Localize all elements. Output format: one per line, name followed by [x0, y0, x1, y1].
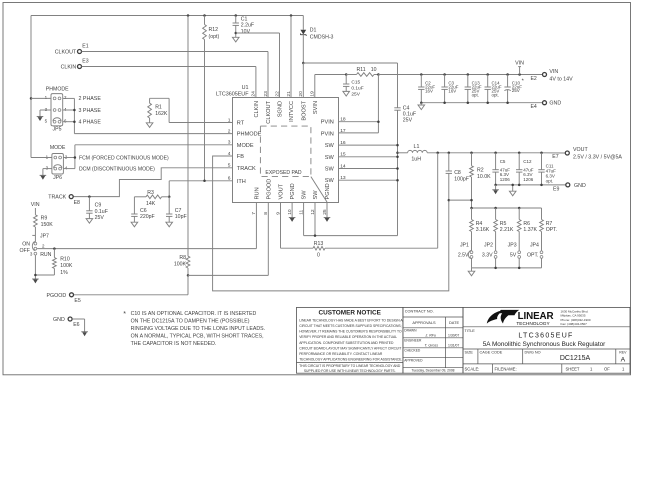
svg-text:FCM (FORCED CONTINUOUS MODE): FCM (FORCED CONTINUOUS MODE)	[79, 156, 169, 162]
chip right pin labels	[321, 120, 335, 185]
svg-text:LTC3605EUF: LTC3605EUF	[518, 332, 573, 339]
capacitor C12 47uF 6.3V 1206	[516, 153, 534, 185]
jumper JP4 OPT.	[527, 242, 543, 268]
node junction INTVCC/C1	[235, 14, 238, 17]
node junction D1/BOOST	[302, 62, 305, 65]
svg-text:14K: 14K	[146, 201, 156, 207]
node junction C1/SGND	[235, 32, 238, 35]
terminal E2 VIN	[530, 69, 573, 82]
svg-text:C4: C4	[403, 105, 410, 111]
svg-text:R9: R9	[41, 216, 48, 222]
capacitor C13 22uF 25V opt.	[465, 73, 482, 102]
svg-text:CIRCUIT BOARD LAYOUT MAY SIGNI: CIRCUIT BOARD LAYOUT MAY SIGNIFICANTLY A…	[299, 346, 401, 350]
resistor R1 162K	[148, 98, 233, 123]
node junction C12 top	[518, 152, 521, 155]
svg-text:VERIFY PROPER AND RELIABLE OPE: VERIFY PROPER AND RELIABLE OPERATION IN …	[299, 335, 397, 339]
svg-text:SW: SW	[325, 155, 335, 161]
svg-text:JP4: JP4	[530, 242, 539, 248]
wire JP5 pin3 to ground	[40, 110, 51, 117]
svg-text:OFF: OFF	[20, 248, 30, 254]
node junction JP5 pin6 tie	[73, 120, 76, 123]
wire JP6 pins 2/4 tie to MODE	[63, 145, 75, 169]
svg-text:SIZE: SIZE	[465, 351, 474, 355]
svg-text:JP6: JP6	[53, 175, 62, 181]
wire JP6 pin1	[31, 157, 52, 159]
svg-text:C5: C5	[500, 159, 506, 164]
node junction INTVCC/R8 bus	[187, 14, 190, 17]
svg-text:CMDSH-3: CMDSH-3	[310, 34, 334, 40]
svg-text:SUPPLIED FOR USE WITH LINEAR T: SUPPLIED FOR USE WITH LINEAR TECHNOLOGY …	[304, 369, 396, 373]
svg-text:VIN: VIN	[515, 60, 524, 66]
node junction ITH/R12 bus	[203, 180, 206, 183]
svg-text:R12: R12	[209, 27, 219, 33]
exposed pad	[260, 126, 327, 202]
svg-text:0.1uF: 0.1uF	[95, 209, 108, 215]
node junction ITH/C7	[168, 196, 171, 199]
svg-text:2.5V: 2.5V	[458, 253, 469, 259]
jumper JP1 2.5V	[458, 242, 473, 268]
inductor L1 1uH	[398, 144, 428, 162]
svg-text:16V: 16V	[425, 88, 433, 93]
svg-text:E2: E2	[530, 76, 536, 82]
wire CLKIN	[82, 67, 256, 99]
svg-text:SW: SW	[325, 143, 335, 149]
svg-text:SVIN: SVIN	[313, 101, 319, 114]
power flag VIN at R9	[31, 202, 40, 215]
ground at PGND pin 25	[324, 202, 331, 222]
svg-text:OF: OF	[604, 366, 610, 371]
svg-text:C9: C9	[95, 203, 102, 209]
svg-text:RINGING VOLTAGE DUE TO THE LON: RINGING VOLTAGE DUE TO THE LONG INPUT LE…	[131, 326, 266, 332]
capacitor C2 22uF 16V	[418, 73, 435, 102]
jumper JP7 header	[20, 233, 52, 257]
svg-text:20: 20	[298, 91, 304, 97]
terminal E1 CLKOUT	[55, 44, 89, 56]
svg-text:INTVCC: INTVCC	[289, 101, 295, 122]
svg-text:GND: GND	[574, 183, 586, 189]
svg-text:4V to 14V: 4V to 14V	[549, 76, 573, 82]
svg-text:1.37K: 1.37K	[523, 227, 537, 233]
svg-text:RT: RT	[237, 121, 245, 127]
svg-text:162K: 162K	[155, 111, 168, 117]
title block customer notice box	[297, 307, 404, 373]
svg-text:SW: SW	[325, 178, 335, 184]
ground at PGND pin 10	[289, 202, 296, 222]
ground below C6	[131, 222, 138, 227]
svg-text:R2: R2	[477, 168, 484, 174]
svg-text:PHMODE: PHMODE	[237, 132, 262, 138]
svg-text:opt.: opt.	[546, 178, 554, 183]
capacitor C6 220pF	[131, 197, 155, 222]
svg-text:CLKIN: CLKIN	[254, 101, 260, 117]
svg-text:3 PHASE: 3 PHASE	[79, 108, 102, 114]
node junction bus/JP5 pin1	[30, 97, 33, 100]
ground at E6	[81, 331, 88, 333]
svg-text:PHMODE: PHMODE	[46, 87, 69, 93]
wire PVIN riser	[338, 75, 378, 133]
wire MODE net to pin 3	[75, 144, 233, 146]
node junction R2 top	[470, 152, 473, 155]
svg-text:TITLE: TITLE	[465, 329, 476, 333]
svg-text:VOUT: VOUT	[573, 147, 588, 153]
svg-text:0: 0	[317, 252, 320, 258]
wire C8-R2 bottom link	[449, 199, 473, 202]
svg-text:T. Gross: T. Gross	[425, 344, 439, 348]
svg-text:R3: R3	[147, 190, 154, 196]
resistor R12 (opt)	[203, 16, 220, 41]
svg-text:4: 4	[228, 151, 231, 157]
Linear Technology logo	[487, 309, 591, 327]
svg-text:LTC3605EUF: LTC3605EUF	[216, 92, 249, 98]
svg-text:LINEAR: LINEAR	[518, 311, 554, 322]
svg-text:ENGINEER: ENGINEER	[404, 338, 422, 342]
svg-text:CONTRACT NO.: CONTRACT NO.	[405, 309, 434, 313]
power flag VIN tap	[515, 60, 524, 75]
resistor R9 150K	[34, 215, 54, 242]
node junction PVIN pin18	[377, 120, 380, 123]
ground arrow open at output	[509, 184, 516, 196]
svg-text:100pF: 100pF	[454, 176, 469, 182]
wire BOOST to C4	[303, 63, 397, 108]
capacitor C4 0.1uF 25V	[394, 105, 416, 145]
svg-text:PGND: PGND	[325, 183, 331, 199]
svg-text:SW: SW	[313, 190, 319, 200]
wire E6 to ground	[72, 319, 84, 332]
svg-text:CHECKED: CHECKED	[404, 348, 421, 352]
svg-text:CLKOUT: CLKOUT	[55, 50, 77, 56]
svg-text:JP3: JP3	[508, 242, 517, 248]
wire VIN rail	[378, 74, 542, 76]
svg-text:R11: R11	[357, 67, 366, 73]
svg-text:25V: 25V	[351, 91, 360, 97]
node junction JP5 pin4 tie	[73, 109, 76, 112]
capacitor C10 22uF 25V optional	[504, 73, 524, 102]
svg-text:1/31/07: 1/31/07	[448, 344, 459, 348]
svg-text:Fax: (408)434-0507: Fax: (408)434-0507	[561, 322, 588, 326]
ground below C5	[492, 185, 499, 194]
node junction SVIN/C15	[345, 73, 348, 76]
svg-text:25V: 25V	[403, 118, 413, 124]
svg-text:GND: GND	[53, 317, 65, 323]
note about C10	[123, 311, 265, 347]
svg-text:E7: E7	[552, 154, 558, 160]
svg-text:THIS CIRCUIT IS PROPRIETARY TO: THIS CIRCUIT IS PROPRIETARY TO LINEAR TE…	[299, 364, 401, 368]
svg-text:1: 1	[228, 117, 231, 123]
svg-text:TECHNOLOGY: TECHNOLOGY	[516, 321, 550, 327]
svg-text:TRACK: TRACK	[48, 195, 66, 201]
svg-text:OPT.: OPT.	[546, 227, 558, 233]
node junction C8/FB	[448, 199, 451, 202]
svg-text:100K: 100K	[174, 262, 187, 268]
svg-text:25V: 25V	[512, 88, 520, 93]
title block right section	[463, 307, 630, 373]
svg-text:10: 10	[371, 67, 377, 73]
svg-text:SW: SW	[325, 167, 335, 173]
capacitor C7 10pF	[166, 197, 187, 222]
svg-text:MODE: MODE	[50, 145, 66, 151]
svg-text:THE CAPACITOR IS NOT NEEDED.: THE CAPACITOR IS NOT NEEDED.	[131, 341, 217, 347]
svg-text:CLKIN: CLKIN	[61, 65, 77, 71]
svg-text:PGOOD: PGOOD	[266, 179, 272, 200]
svg-text:CAGE CODE: CAGE CODE	[480, 351, 503, 355]
wire VOUT rail	[427, 152, 565, 154]
svg-text:3.3V: 3.3V	[482, 253, 493, 259]
chip bottom pin labels rotated	[255, 179, 332, 200]
scale/sheet row	[465, 364, 626, 373]
node junction R8/PGOOD	[187, 274, 190, 277]
svg-text:L1: L1	[414, 144, 420, 150]
svg-text:PERFORMANCE OR RELIABILITY. CO: PERFORMANCE OR RELIABILITY. CONTACT LINE…	[299, 352, 383, 356]
svg-text:BOOST: BOOST	[301, 100, 307, 120]
terminal E9 GND	[553, 183, 586, 193]
svg-text:E6: E6	[73, 322, 79, 328]
terminal E8 TRACK	[48, 195, 80, 206]
svg-text:E4: E4	[530, 104, 536, 110]
svg-text:CLKOUT: CLKOUT	[266, 100, 272, 123]
svg-text:VIN: VIN	[31, 202, 40, 208]
wire SVIN pin 19	[315, 75, 346, 99]
jumper JP6 MODE header	[46, 145, 68, 181]
diode D1 CMDSH-3	[300, 16, 333, 64]
svg-text:1uH: 1uH	[411, 157, 421, 163]
svg-text:D1: D1	[310, 28, 317, 34]
svg-text:E9: E9	[553, 187, 559, 193]
svg-text:*: *	[123, 311, 126, 318]
svg-text:R1: R1	[155, 105, 162, 111]
ground below C1	[232, 37, 239, 42]
svg-text:C12: C12	[523, 159, 532, 164]
svg-text:25V: 25V	[95, 215, 105, 221]
svg-text:PGND: PGND	[290, 183, 296, 199]
svg-text:TECHNOLOGY APPLICATIONS ENGINE: TECHNOLOGY APPLICATIONS ENGINEERING FOR …	[299, 358, 402, 362]
wire JP7 pin3 to ground	[34, 255, 36, 279]
jumper JP5 PHMODE header	[45, 87, 69, 133]
svg-text:E1: E1	[82, 44, 88, 50]
capacitor C9 0.1uF 25V	[86, 197, 108, 221]
chip left pin labels	[237, 121, 262, 185]
title block contract/approvals box	[403, 307, 463, 373]
svg-text:opt.: opt.	[492, 92, 499, 97]
resistor R6 1.37K	[517, 208, 537, 251]
svg-text:SHEET: SHEET	[566, 366, 580, 371]
svg-text:C7: C7	[175, 208, 182, 214]
svg-text:DATE: DATE	[449, 320, 459, 325]
wire R12 bus down to ITH	[204, 40, 206, 181]
wire ITH net	[169, 181, 232, 197]
svg-text:SW: SW	[302, 190, 308, 200]
svg-text:R10: R10	[60, 257, 70, 263]
svg-text:E5: E5	[74, 298, 80, 304]
svg-text:opt.: opt.	[472, 92, 479, 97]
svg-text:10.0K: 10.0K	[477, 174, 491, 180]
ground below C15	[343, 91, 350, 96]
svg-text:SCALE:: SCALE:	[465, 366, 480, 371]
capacitor C8 100pF	[446, 153, 469, 200]
node junction R10/gnd	[34, 274, 37, 277]
svg-text:ON: ON	[22, 241, 30, 247]
svg-text:R8: R8	[179, 255, 186, 261]
svg-text:C1: C1	[241, 17, 248, 23]
terminal E4 GND	[530, 101, 561, 111]
ground below C9	[86, 219, 93, 224]
svg-text:1/30/07: 1/30/07	[448, 334, 459, 338]
terminal E7 VOUT	[552, 147, 622, 160]
svg-text:JP5: JP5	[53, 127, 62, 133]
wire R8 bus from INTVCC	[187, 16, 189, 257]
node junction R11/PVIN riser	[377, 73, 380, 76]
ground at JP5 pin3	[37, 116, 44, 118]
svg-text:Tuesday, December 09, 2008: Tuesday, December 09, 2008	[411, 369, 454, 373]
node junction C8 top	[448, 152, 451, 155]
resistor R7 OPT.	[540, 208, 558, 251]
svg-text:2: 2	[228, 128, 231, 134]
resistor R13 0 ohm	[281, 153, 438, 259]
svg-text:CIRCUIT THAT MEETS CUSTOMER-SU: CIRCUIT THAT MEETS CUSTOMER-SUPPLIED SPE…	[299, 324, 401, 328]
svg-text:0.1uF: 0.1uF	[403, 112, 416, 118]
chip top pin labels rotated	[254, 100, 319, 123]
wire SGND link	[236, 33, 280, 98]
svg-text:5: 5	[228, 163, 231, 169]
svg-text:1206: 1206	[523, 177, 534, 182]
capacitor C14 22uF 25V opt.	[485, 73, 502, 102]
resistor R5 2.21K	[494, 208, 514, 251]
resistor R3 14K	[134, 190, 169, 207]
svg-text:DRAWN: DRAWN	[404, 328, 417, 332]
svg-text:5V: 5V	[510, 253, 517, 259]
svg-text:3: 3	[228, 140, 231, 146]
svg-text:2.21K: 2.21K	[500, 227, 514, 233]
wire PGOOD net	[74, 202, 269, 295]
svg-text:8: 8	[263, 212, 269, 215]
ground at JP6 pin3	[40, 174, 47, 176]
resistor R8 100K	[174, 255, 190, 275]
svg-text:EXPOSED PAD: EXPOSED PAD	[265, 170, 301, 176]
title text	[465, 329, 607, 348]
svg-text:ON A NORMAL, TYPICAL PCB, WITH: ON A NORMAL, TYPICAL PCB, WITH SHORT TRA…	[131, 334, 264, 340]
svg-text:SGND: SGND	[278, 101, 284, 117]
svg-text:DC1215A: DC1215A	[560, 355, 591, 362]
IC U1 LTC3605EUF buck regulator	[216, 85, 339, 203]
svg-text:MODE: MODE	[237, 143, 254, 149]
node junction INTVCC pin21	[290, 14, 293, 17]
size/cage/dwg row	[465, 349, 628, 364]
svg-text:ITH: ITH	[237, 179, 246, 185]
svg-text:0.1uF: 0.1uF	[351, 85, 363, 91]
svg-text:16V: 16V	[448, 88, 456, 93]
svg-text:JP7: JP7	[40, 233, 49, 239]
node junction VOUT riser	[436, 152, 439, 155]
svg-text:E3: E3	[82, 59, 88, 65]
svg-text:23: 23	[263, 91, 269, 97]
wire INTVCC top rail	[31, 15, 303, 17]
svg-text:REV: REV	[619, 350, 627, 354]
svg-text:APPROVED: APPROVED	[404, 358, 423, 362]
ground below C7	[166, 222, 173, 227]
svg-text:PGOOD: PGOOD	[46, 293, 66, 299]
resistor R10 100K 1%	[35, 249, 72, 276]
svg-text:TRACK: TRACK	[237, 166, 256, 172]
ground below JP7	[32, 278, 39, 280]
capacitor C11 47uF 6.3V opt.	[538, 153, 556, 185]
terminal E6 GND	[53, 317, 80, 328]
svg-text:A: A	[621, 357, 626, 364]
svg-text:220pF: 220pF	[140, 214, 155, 220]
node junction C11 top	[540, 152, 543, 155]
svg-text:C10 IS AN OPTIONAL CAPACITOR.: C10 IS AN OPTIONAL CAPACITOR. IT IS INSE…	[131, 311, 257, 317]
svg-text:HOWEVER, IT REMAINS THE CUSTOM: HOWEVER, IT REMAINS THE CUSTOMER'S RESPO…	[299, 330, 402, 334]
wire SW bottom link pins 11/12	[304, 202, 398, 237]
svg-text:U1: U1	[242, 85, 249, 91]
svg-text:ON THE DC1215A TO DAMPEN THE (: ON THE DC1215A TO DAMPEN THE (POSSIBLE)	[131, 319, 250, 325]
node junction TRACK/C9	[88, 195, 91, 198]
shunt arc on JP1	[468, 250, 471, 258]
terminal E5 PGOOD	[46, 293, 80, 304]
ground below C2	[418, 105, 425, 110]
ground below JP1	[468, 271, 475, 276]
jumper JP3 5V	[508, 242, 521, 268]
svg-text:FB: FB	[237, 154, 244, 160]
svg-text:10V: 10V	[241, 29, 251, 35]
svg-text:APPROVALS: APPROVALS	[412, 320, 436, 325]
svg-text:C15: C15	[351, 79, 360, 85]
svg-text:4 PHASE: 4 PHASE	[79, 120, 102, 126]
wire input gnd rail	[420, 101, 542, 105]
svg-text:DCM (DISCONTINUOUS MODE): DCM (DISCONTINUOUS MODE)	[79, 167, 155, 173]
capacitor C15 0.1uF 25V	[343, 75, 364, 98]
svg-text:(opt): (opt)	[209, 34, 220, 40]
svg-text:JP2: JP2	[484, 242, 493, 248]
chip top pin numbers rotated	[251, 91, 316, 97]
wire CLKOUT	[82, 52, 268, 99]
wire TRACK net	[73, 168, 232, 197]
svg-text:2 PHASE: 2 PHASE	[79, 96, 102, 102]
svg-text:E8: E8	[74, 200, 80, 206]
svg-text:1%: 1%	[60, 270, 68, 276]
svg-text:1206: 1206	[500, 177, 511, 182]
svg-text:LINEAR TECHNOLOGY HAS MADE A B: LINEAR TECHNOLOGY HAS MADE A BEST EFFORT…	[299, 318, 403, 322]
wire RUN net	[37, 202, 256, 249]
wire FB net	[213, 156, 449, 291]
ground below R1	[146, 123, 153, 128]
svg-text:JP1: JP1	[460, 242, 469, 248]
capacitor C1 2.2uF 10V	[233, 16, 255, 38]
svg-text:5A Monolithic Synchronous Buck: 5A Monolithic Synchronous Buck Regulator	[483, 341, 606, 348]
svg-text:10pF: 10pF	[175, 214, 187, 220]
svg-text:R13: R13	[314, 241, 324, 247]
wire PHMODE net to pin 2	[74, 133, 232, 135]
wire left INTVCC bus to JP5/JP6	[30, 16, 32, 158]
svg-text:APPLICATION. COMPONENT SUBSTIT: APPLICATION. COMPONENT SUBSTITUTION AND …	[299, 341, 394, 345]
svg-text:CUSTOMER NOTICE: CUSTOMER NOTICE	[319, 310, 382, 317]
svg-text:3.16K: 3.16K	[476, 227, 490, 233]
wire jumper bottom rail	[472, 267, 542, 272]
svg-text:6: 6	[228, 176, 231, 182]
svg-text:PVIN: PVIN	[321, 131, 334, 137]
svg-text:7: 7	[251, 212, 257, 215]
svg-text:C6: C6	[140, 208, 147, 214]
svg-text:2.2uF: 2.2uF	[241, 23, 254, 29]
wire JP5 pin1	[31, 97, 51, 99]
svg-text:GND: GND	[549, 101, 561, 107]
node junction RUN/R10	[53, 247, 56, 250]
wire output gnd link	[494, 184, 565, 187]
svg-text:J. RFu: J. RFu	[424, 334, 436, 338]
wire SW bus and pin stubs	[338, 110, 399, 235]
svg-text:DWG NO: DWG NO	[525, 351, 541, 355]
resistor R2 10.0K	[470, 153, 491, 208]
resistor R11 10	[346, 67, 378, 76]
node junction C5 top	[494, 152, 497, 155]
